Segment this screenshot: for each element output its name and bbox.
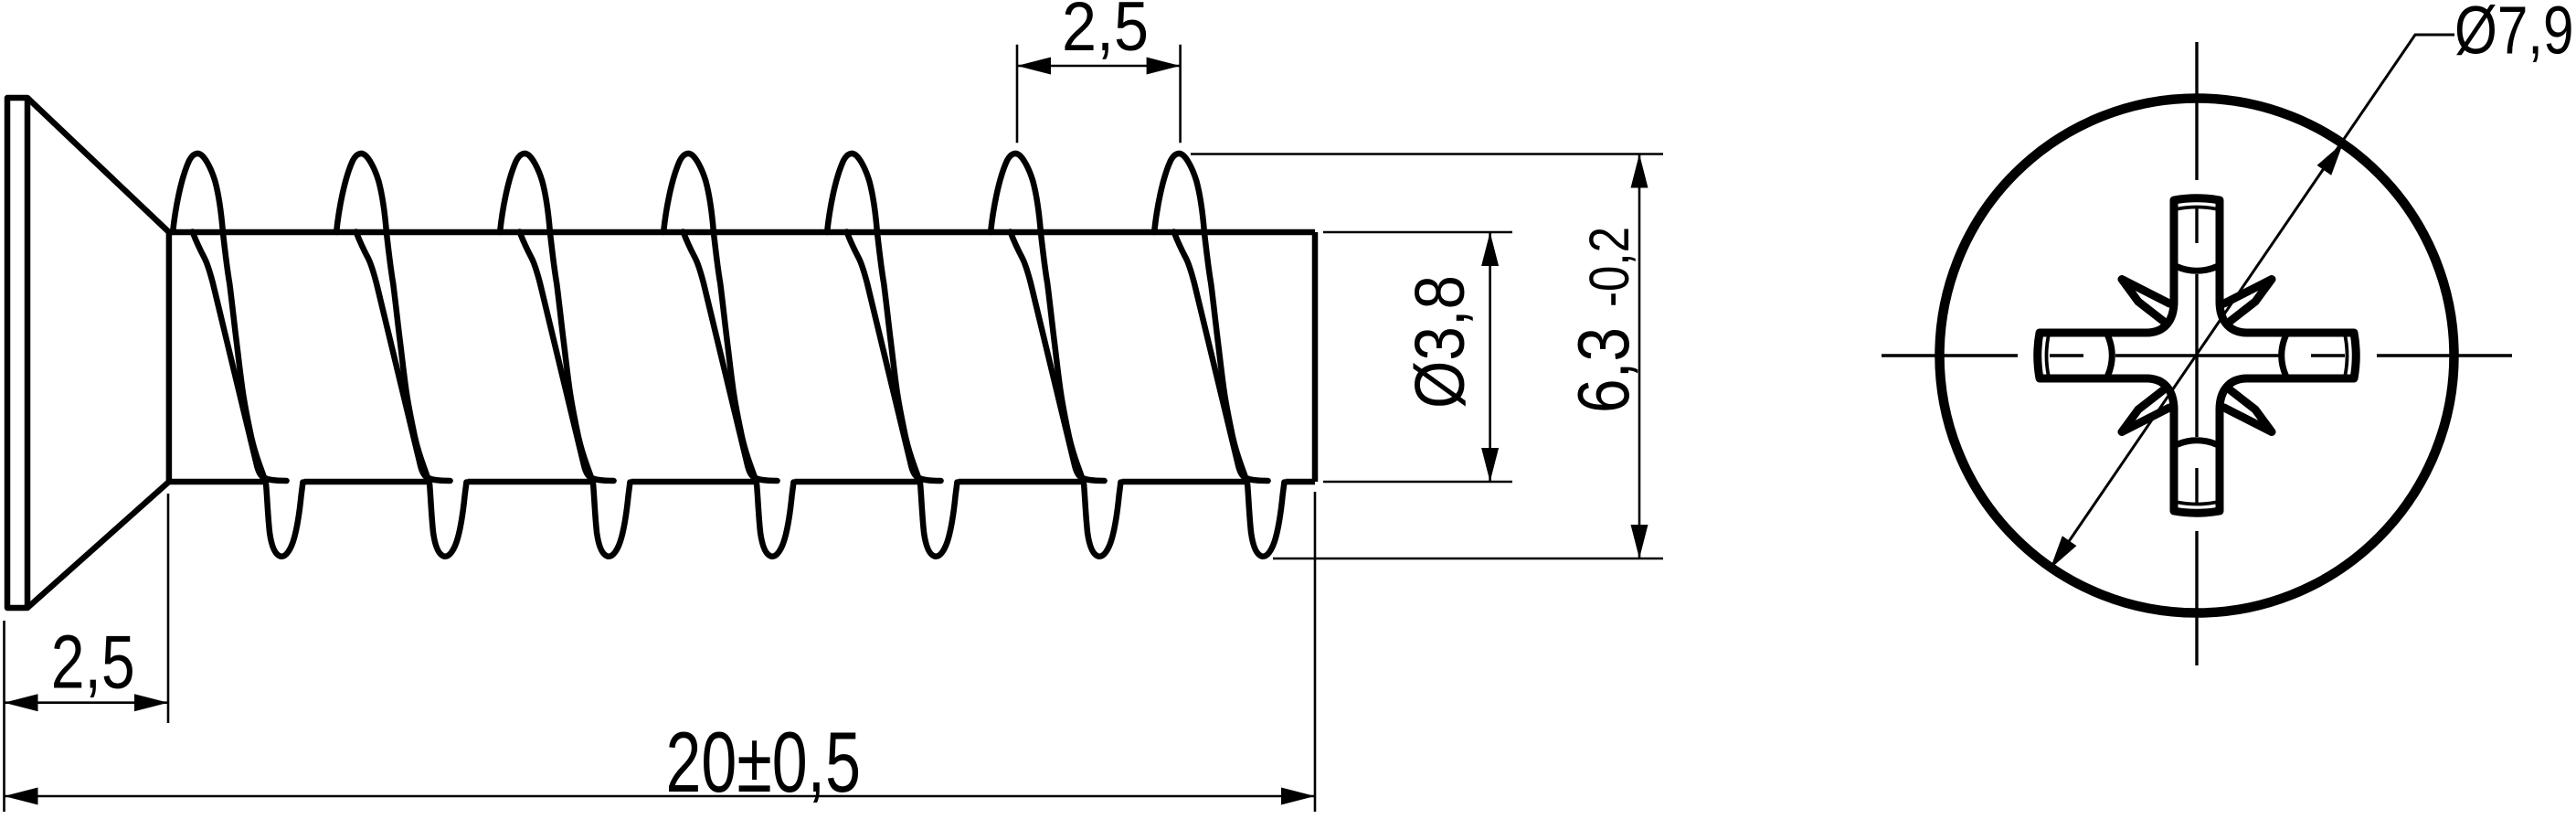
thread revolution 6 [991, 154, 1120, 557]
dimension line 20 +-0,5 overall length [5, 795, 1316, 798]
pozidriv recess cross outline [2038, 198, 2357, 514]
shaft core top line [169, 229, 1315, 236]
dimension line Ø3,8 core diameter [1489, 232, 1491, 482]
svg-text:-0,2: -0,2 [1578, 227, 1640, 307]
pozidriv wing upper left [2122, 280, 2169, 322]
extension line pitch right crest [1179, 45, 1182, 144]
horizontal centre line [1882, 354, 2512, 356]
arrowhead 20 left [5, 788, 38, 805]
leader line Ø7,9 [2051, 35, 2454, 569]
arrowhead Ø3,8 bottom [1481, 448, 1499, 482]
inner cap line left arm [2047, 336, 2049, 375]
dimension line 6,3 outer diameter [1638, 154, 1641, 559]
thread revolution 4 [663, 154, 793, 557]
svg-text:2,5: 2,5 [51, 620, 135, 705]
arrowhead 2,5 head right [134, 694, 168, 711]
dimension line 2,5 thread pitch [1017, 65, 1181, 68]
head outline circle [1940, 99, 2454, 613]
arrowhead Ø3,8 top [1481, 232, 1499, 266]
extension line core diameter bottom [1323, 481, 1512, 484]
arrowhead 2,5 head left [5, 694, 38, 711]
extension line core diameter top [1323, 231, 1512, 234]
arrowhead 6,3 top [1631, 154, 1648, 188]
inner cap line right arm [2346, 336, 2348, 375]
tick arc bottom arm [2177, 441, 2217, 445]
thread revolution 3 [500, 154, 630, 557]
svg-text:2,5: 2,5 [1062, 0, 1149, 66]
inner cap line top arm [2178, 207, 2216, 209]
pozidriv wing upper right [2224, 280, 2272, 322]
thread revolution 5 [827, 154, 957, 557]
svg-text:20±0,5: 20±0,5 [666, 714, 862, 810]
extension line at head/shaft junction [167, 494, 170, 723]
countersunk head cone [27, 98, 169, 608]
extension line at shaft end [1314, 492, 1317, 812]
svg-text:Ø3,8: Ø3,8 [1401, 275, 1479, 409]
shaft core bottom line (interrupted at bottom thread crests) [169, 479, 1315, 485]
arrowhead 20 right [1281, 788, 1315, 805]
thread revolution 7 [1154, 154, 1284, 557]
arrowhead 6,3 bottom [1631, 525, 1648, 558]
extension line at head face (left) [3, 621, 5, 812]
screw head flange [7, 98, 27, 608]
extension line pitch left crest [1016, 45, 1019, 144]
leader arrowhead lower left [2051, 536, 2077, 569]
leader arrowhead upper right [2317, 143, 2344, 175]
arrowhead pitch left [1017, 58, 1051, 75]
tick arc right arm [2282, 335, 2286, 376]
arrowhead pitch right [1147, 58, 1181, 75]
extension line outer diameter top [1191, 153, 1663, 155]
pozidriv wing lower right [2224, 390, 2272, 432]
tick arc left arm [2108, 335, 2113, 376]
tick arc top arm [2177, 267, 2217, 271]
shaft end face [1312, 232, 1319, 482]
svg-text:6,3: 6,3 [1563, 327, 1644, 413]
pozidriv wing lower left [2122, 390, 2169, 432]
svg-text:Ø7,9: Ø7,9 [2454, 0, 2574, 69]
thread revolution 2 [336, 154, 466, 557]
dimension line 2,5 head height [5, 701, 169, 704]
inner cap line bottom arm [2178, 503, 2216, 505]
vertical centre line [2195, 42, 2198, 665]
thread revolution 1 [173, 154, 302, 557]
extension line outer diameter bottom [1273, 558, 1663, 560]
